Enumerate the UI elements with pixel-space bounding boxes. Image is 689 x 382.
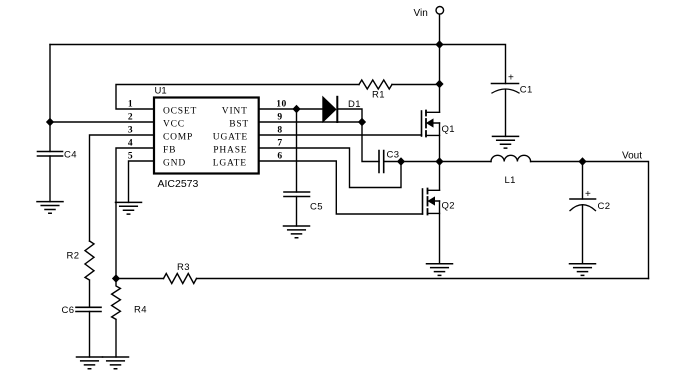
svg-text:2: 2 bbox=[128, 113, 133, 123]
svg-text:R1: R1 bbox=[372, 90, 385, 101]
wire C6 to ground bbox=[89, 312, 91, 358]
capacitor C3 bbox=[379, 151, 384, 173]
node BST junction bbox=[359, 119, 366, 126]
svg-text:+: + bbox=[508, 73, 514, 84]
svg-text:C6: C6 bbox=[62, 305, 75, 316]
svg-text:C1: C1 bbox=[520, 85, 533, 96]
op-amp U1 AIC2573 IC box bbox=[154, 98, 259, 174]
wire Vin column down to Q1 drain bbox=[439, 45, 441, 113]
node R1 junction bbox=[436, 81, 443, 88]
wire GND pin5 to ground bbox=[129, 161, 155, 202]
wire R4 to ground bbox=[115, 320, 117, 357]
wire OCSET pin1 to R1 bbox=[116, 85, 359, 110]
svg-text:9: 9 bbox=[277, 113, 282, 123]
transistor Q2 bbox=[423, 189, 440, 215]
svg-text:VINT: VINT bbox=[222, 107, 248, 117]
svg-text:Q1: Q1 bbox=[442, 124, 455, 135]
svg-text:LGATE: LGATE bbox=[213, 159, 247, 169]
wire C3 right to phase node bbox=[384, 161, 440, 163]
wire left VCC column bbox=[49, 45, 51, 152]
resistor R4 bbox=[112, 279, 121, 320]
wire Vout node right and down bbox=[583, 162, 649, 279]
svg-text:FB: FB bbox=[163, 146, 176, 156]
node pin10 junction bbox=[293, 106, 300, 113]
wire C5 from pin10 junction bbox=[296, 109, 298, 192]
wire COMP pin3 to R2 bbox=[90, 135, 155, 241]
capacitor C5 bbox=[284, 192, 310, 197]
wire UGATE pin8 to Q1 gate bbox=[259, 134, 422, 136]
svg-text:PHASE: PHASE bbox=[213, 146, 247, 156]
svg-text:C4: C4 bbox=[64, 150, 77, 161]
resistor R1 bbox=[359, 80, 392, 89]
wire Vin stub bbox=[439, 15, 441, 45]
diode D1 bbox=[323, 97, 338, 122]
wire feedback rail bbox=[197, 278, 649, 280]
wire BST pin9 bbox=[259, 121, 362, 123]
svg-text:GND: GND bbox=[163, 159, 186, 169]
svg-text:OCSET: OCSET bbox=[163, 107, 197, 117]
resistor R3 bbox=[164, 274, 197, 284]
svg-text:Q2: Q2 bbox=[442, 201, 455, 212]
svg-text:R2: R2 bbox=[67, 251, 80, 262]
wire D1 cathode to BST bbox=[337, 109, 362, 122]
capacitor C4 bbox=[38, 152, 63, 157]
Vin terminal circle bbox=[436, 7, 444, 15]
wire R3 to feedback junction bbox=[116, 278, 164, 280]
wire Q2 source to ground bbox=[439, 201, 441, 264]
wire C5 to ground bbox=[296, 197, 298, 227]
ground C2 bbox=[570, 264, 596, 276]
svg-text:BST: BST bbox=[229, 120, 249, 130]
ground C5 bbox=[284, 226, 310, 238]
svg-text:7: 7 bbox=[277, 139, 282, 149]
resistor R2 bbox=[85, 241, 94, 280]
ground R4 bbox=[103, 357, 129, 369]
wire top rail Vin to VCC column bbox=[50, 44, 440, 46]
wire C4 to ground bbox=[49, 156, 51, 202]
wire Vout node to C2 bbox=[582, 162, 584, 200]
svg-text:Vin: Vin bbox=[414, 8, 428, 19]
capacitor C6 bbox=[76, 307, 101, 311]
wire phase node to L1 bbox=[440, 161, 492, 163]
svg-text:U1: U1 bbox=[155, 86, 167, 97]
svg-text:C3: C3 bbox=[387, 150, 400, 161]
node C3 junction bbox=[398, 158, 405, 165]
node Vin junction bbox=[436, 41, 443, 48]
svg-text:+: + bbox=[585, 189, 591, 200]
svg-text:Vout: Vout bbox=[622, 151, 642, 162]
wire R1 to Vin column bbox=[392, 84, 440, 86]
ground C1 bbox=[493, 136, 519, 148]
svg-text:C2: C2 bbox=[598, 201, 611, 212]
svg-text:R4: R4 bbox=[134, 305, 147, 316]
node VCC junction bbox=[47, 119, 54, 126]
ground Q2 bbox=[427, 264, 453, 276]
svg-text:5: 5 bbox=[128, 152, 133, 162]
wire FB pin4 down to feedback junction bbox=[116, 148, 154, 279]
wire R2 to C6 bbox=[89, 281, 91, 307]
capacitor C2 bbox=[570, 199, 596, 211]
capacitor C1 bbox=[492, 84, 520, 94]
transistor Q1 bbox=[422, 111, 440, 137]
wire VINT pin10 to D1 anode bbox=[259, 108, 323, 110]
svg-text:UGATE: UGATE bbox=[213, 133, 248, 143]
node Vout junction bbox=[579, 158, 586, 165]
svg-text:R3: R3 bbox=[177, 262, 190, 273]
wire C1 to ground bbox=[505, 89, 507, 136]
ground C4 bbox=[37, 202, 63, 214]
node phase junction bbox=[436, 158, 443, 165]
svg-text:8: 8 bbox=[277, 126, 282, 136]
svg-text:6: 6 bbox=[277, 152, 282, 162]
svg-text:1: 1 bbox=[128, 100, 133, 110]
svg-text:4: 4 bbox=[128, 139, 133, 149]
inductor L1 bbox=[491, 155, 531, 161]
wire BST to C3 left bbox=[362, 122, 379, 162]
ground C6 bbox=[77, 357, 103, 369]
svg-text:L1: L1 bbox=[505, 175, 516, 186]
wire Q1 source to phase and Q2 drain bbox=[439, 123, 441, 190]
svg-text:COMP: COMP bbox=[163, 133, 193, 143]
wire LGATE pin6 to Q2 gate bbox=[259, 161, 423, 214]
svg-text:3: 3 bbox=[128, 126, 133, 136]
wire Vin junction to C1 bbox=[440, 45, 506, 84]
wire L1 to Vout node bbox=[531, 161, 583, 163]
node feedback junction bbox=[113, 275, 120, 282]
svg-text:10: 10 bbox=[276, 100, 287, 110]
wire VCC pin2 bbox=[50, 121, 154, 123]
wire C2 to ground bbox=[582, 205, 584, 264]
wire PHASE pin7 detour to C3 junction bbox=[259, 148, 401, 188]
svg-text:VCC: VCC bbox=[163, 120, 185, 130]
svg-text:AIC2573: AIC2573 bbox=[158, 178, 199, 190]
ground pin5 bbox=[116, 202, 142, 214]
svg-text:C5: C5 bbox=[310, 202, 323, 213]
